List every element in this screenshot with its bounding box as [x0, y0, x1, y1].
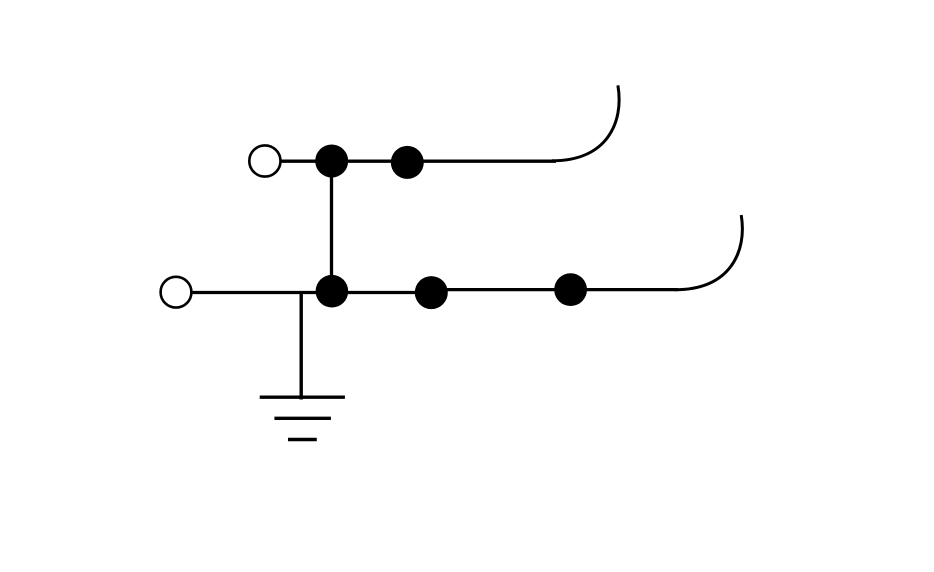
wire second-row horizontal [193, 291, 432, 294]
node D1 (junction dot, top row left) [315, 145, 348, 178]
ground [260, 397, 345, 439]
wire top-row curved end [552, 85, 619, 160]
wire second-row horizontal right part [431, 288, 678, 291]
node D3 (junction dot, second row left) [316, 275, 349, 308]
wire second-row curved end [675, 215, 742, 290]
node D4 (junction dot, second row middle) [415, 276, 448, 309]
wire ground stem [300, 292, 303, 400]
wire top-row horizontal [281, 160, 556, 163]
node D5 (junction dot, second row right) [554, 273, 587, 306]
terminal T2 (open circle, second row) [161, 277, 192, 308]
wire vertical between rows [330, 161, 333, 292]
terminal T1 (open circle, top row) [249, 145, 280, 176]
node D2 (junction dot, top row right) [391, 146, 424, 179]
